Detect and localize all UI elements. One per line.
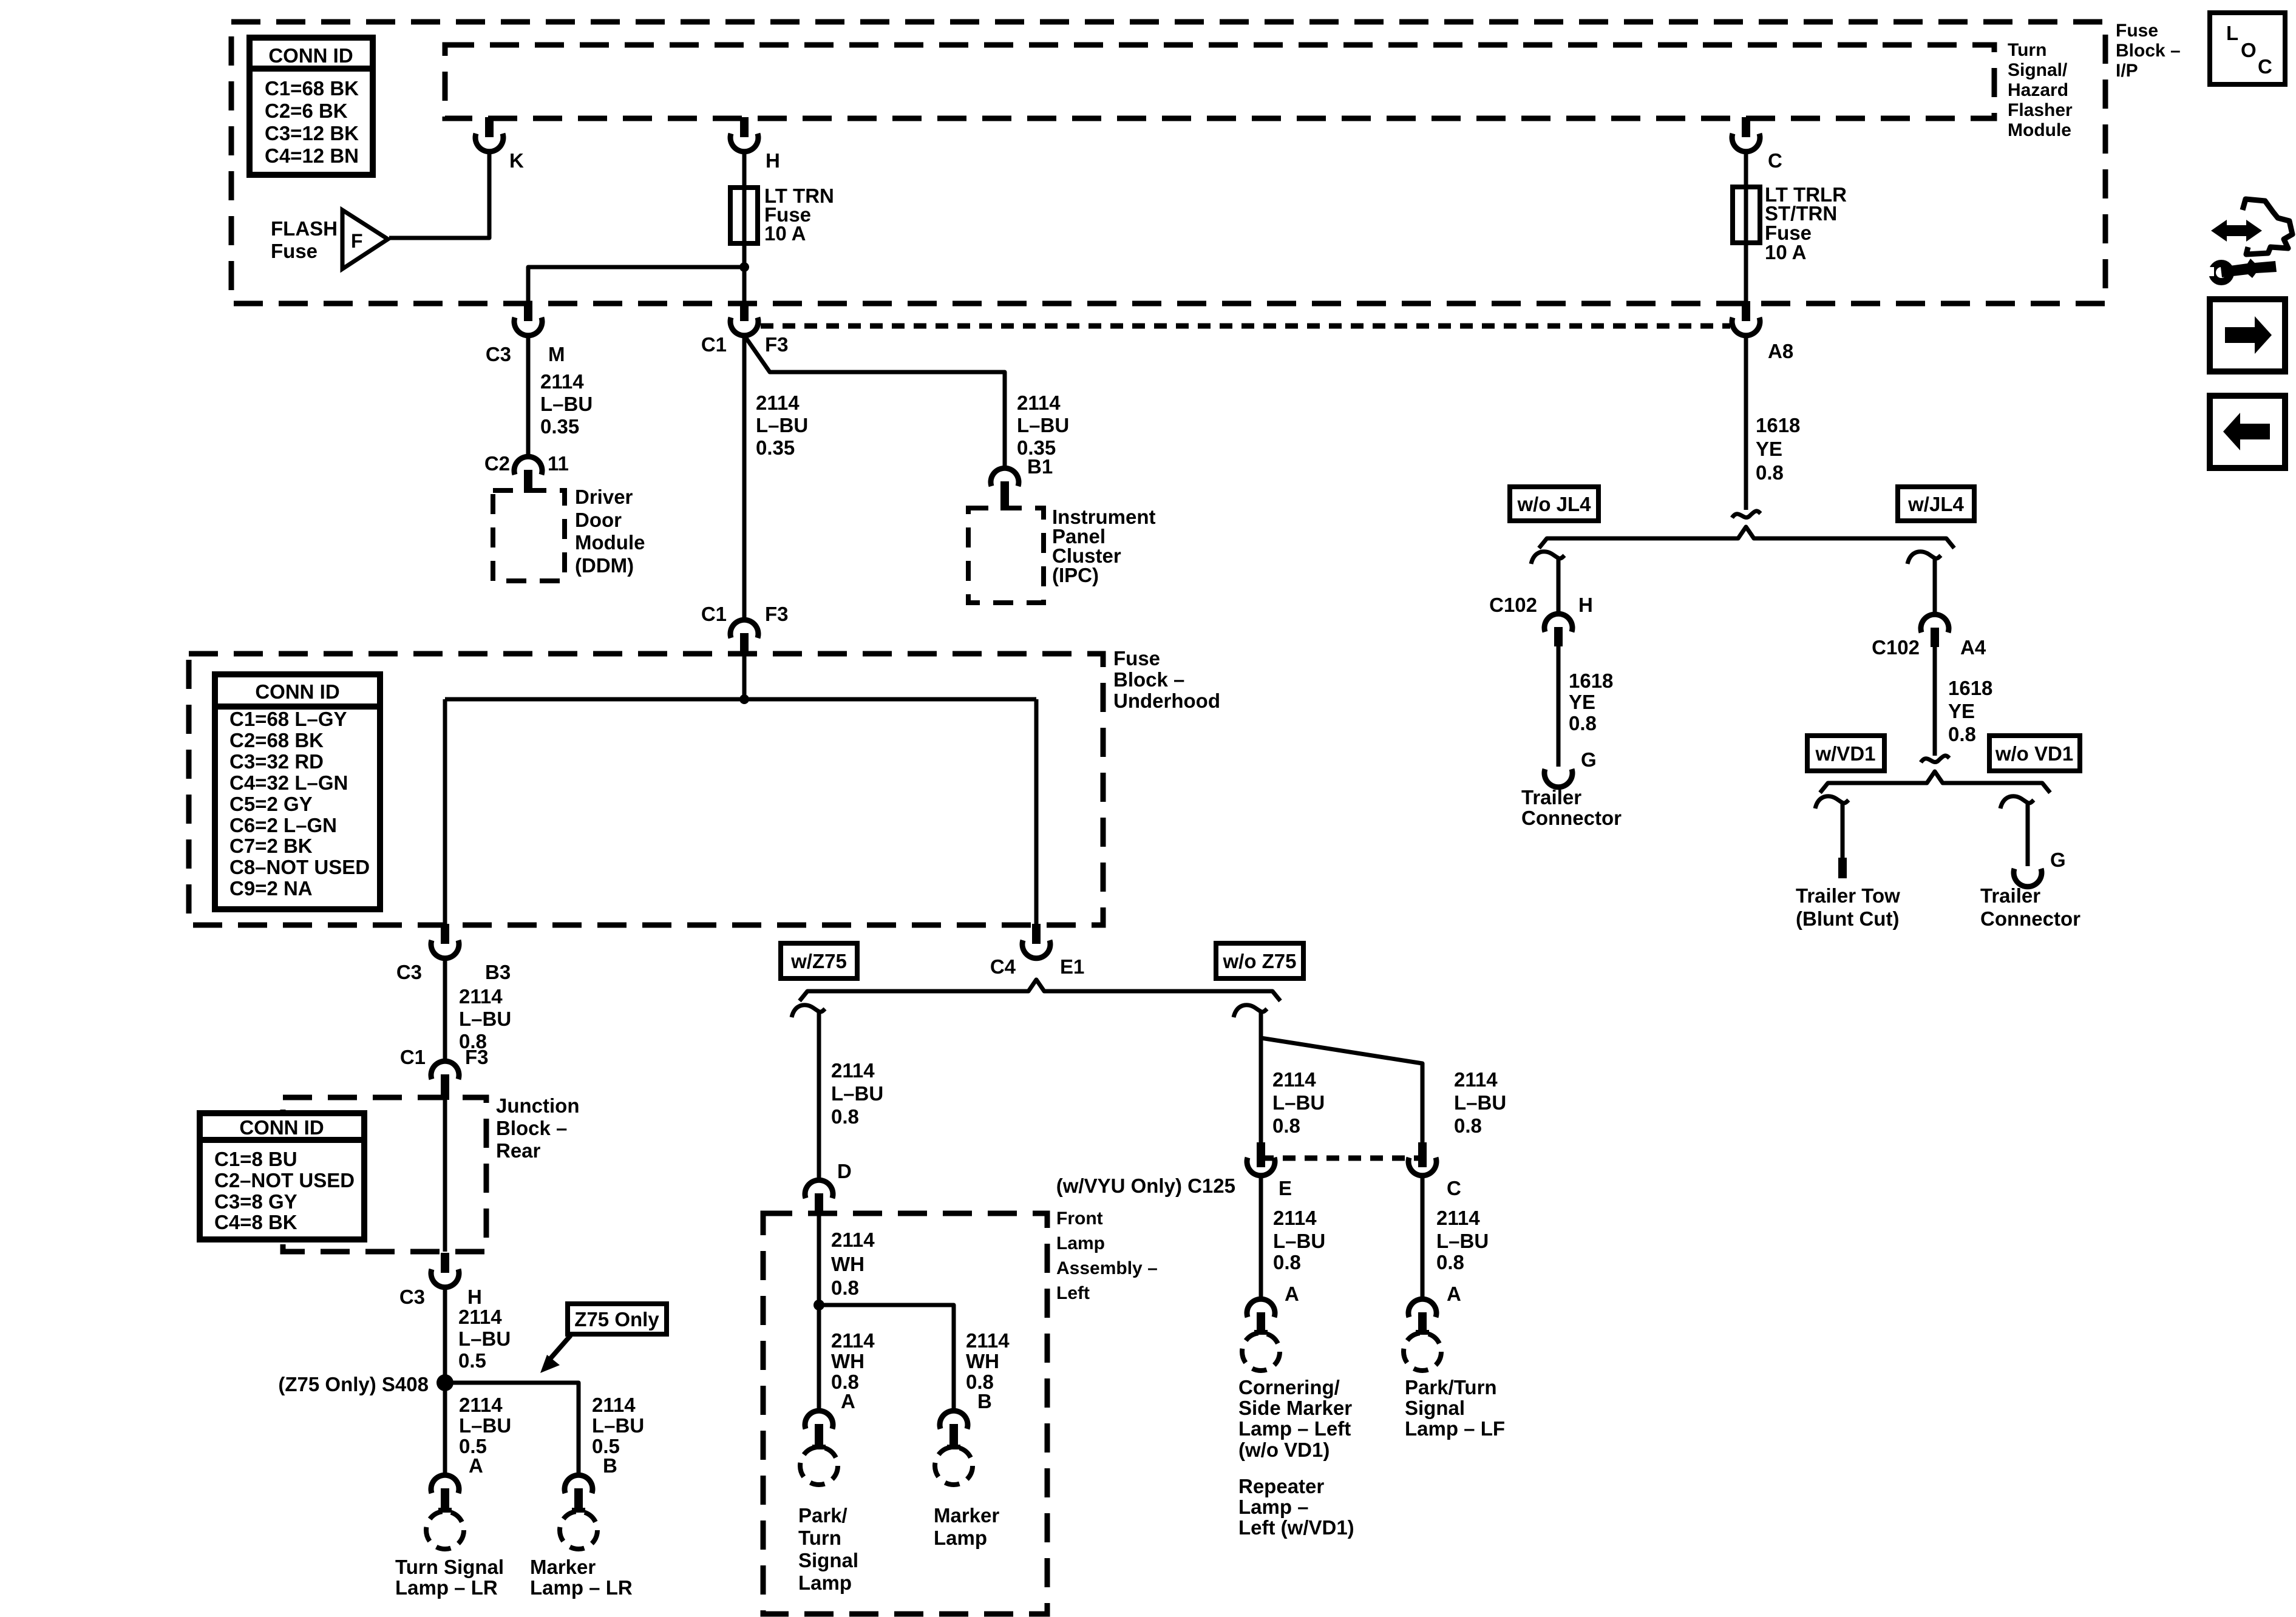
junction dot at underhood bus — [739, 694, 749, 704]
svg-text:Turn: Turn — [2008, 40, 2046, 60]
svg-text:L–BU: L–BU — [1017, 414, 1069, 436]
svg-text:C9=2 NA: C9=2 NA — [229, 877, 313, 900]
wire to front marker lamp — [819, 1305, 954, 1410]
svg-text:(Z75 Only) S408: (Z75 Only) S408 — [278, 1373, 429, 1395]
cut curl at A4 wire end — [1921, 756, 1949, 762]
svg-text:0.35: 0.35 — [756, 436, 795, 459]
hook at w/o VD1 branch — [2000, 796, 2034, 808]
wire C to LT TRLR fuse — [1744, 149, 1748, 189]
driver door module DDM dashed box — [493, 490, 565, 581]
svg-text:w/o JL4: w/o JL4 — [1517, 493, 1591, 515]
connector A (park/turn signal lamp) — [805, 1411, 833, 1429]
svg-text:0.8: 0.8 — [1569, 712, 1597, 734]
svg-text:WH: WH — [831, 1350, 864, 1372]
svg-text:Fuse: Fuse — [1113, 647, 1160, 670]
connector A (cornering lamp) — [1247, 1299, 1275, 1317]
svg-text:A4: A4 — [1960, 636, 1986, 659]
junction dot at LT TRN output — [739, 262, 749, 272]
svg-text:A: A — [469, 1454, 483, 1477]
blunt cut stub (trailer tow) — [1838, 858, 1847, 878]
svg-text:Block –: Block – — [1113, 668, 1184, 691]
svg-text:CONN ID: CONN ID — [239, 1116, 324, 1139]
svg-text:Cornering/: Cornering/ — [1238, 1376, 1340, 1398]
CONN ID table (underhood) — [215, 674, 380, 909]
svg-text:Turn Signal: Turn Signal — [395, 1556, 504, 1578]
wire w/o VD1 branch — [2026, 805, 2030, 866]
option label box w/o VD1 — [1989, 736, 2080, 771]
svg-text:0.8: 0.8 — [1436, 1251, 1464, 1273]
svg-text:w/o VD1: w/o VD1 — [1995, 742, 2073, 765]
fuse block underhood dashed box — [189, 654, 1103, 925]
svg-text:Marker: Marker — [530, 1556, 596, 1578]
svg-text:F3: F3 — [465, 1046, 489, 1068]
svg-text:Repeater: Repeater — [1238, 1475, 1324, 1497]
svg-text:C2=6 BK: C2=6 BK — [265, 100, 348, 122]
option label box w/o Z75 — [1216, 943, 1303, 978]
svg-text:L–BU: L–BU — [1272, 1091, 1325, 1114]
svg-text:(DDM): (DDM) — [575, 554, 634, 577]
svg-text:(w/VYU Only) C125: (w/VYU Only) C125 — [1056, 1175, 1235, 1197]
diagonal wire to C branch — [1261, 1038, 1422, 1142]
svg-text:C1: C1 — [400, 1046, 426, 1068]
svg-text:Park/: Park/ — [798, 1504, 847, 1527]
junction dot front lamp — [813, 1300, 824, 1310]
fuse LT TRN 10A — [730, 188, 758, 243]
svg-text:2114: 2114 — [831, 1059, 875, 1082]
svg-text:FLASH: FLASH — [271, 217, 338, 240]
turn signal lamp LR bulb — [426, 1511, 464, 1549]
svg-text:(w/o VD1): (w/o VD1) — [1238, 1439, 1330, 1461]
hook at w/o JL4 branch — [1531, 552, 1564, 564]
wire w/o JL4 branch to C102 — [1557, 560, 1561, 613]
service manual icon (wrench) — [2211, 220, 2262, 242]
svg-text:C3=12 BK: C3=12 BK — [265, 122, 359, 144]
connector A (park/turn lamp LF) — [1408, 1299, 1436, 1317]
svg-text:2114: 2114 — [1436, 1207, 1480, 1229]
svg-text:YE: YE — [1569, 691, 1595, 713]
svg-text:Block –: Block – — [2116, 41, 2181, 61]
connector E (inline C125) — [1257, 1142, 1265, 1167]
svg-text:L–BU: L–BU — [458, 1327, 511, 1350]
svg-text:1618: 1618 — [1948, 677, 1992, 699]
svg-text:C1: C1 — [701, 333, 727, 356]
svg-text:Front: Front — [1056, 1209, 1103, 1229]
svg-text:Left: Left — [1056, 1283, 1090, 1303]
svg-text:Rear: Rear — [496, 1139, 541, 1162]
connector C2 pin 11 (DDM input) — [514, 456, 542, 475]
svg-text:Park/Turn: Park/Turn — [1405, 1376, 1497, 1398]
svg-text:K: K — [509, 149, 524, 172]
connector A (turn signal lamp LR) — [431, 1475, 459, 1493]
svg-text:Trailer: Trailer — [1980, 884, 2040, 907]
option label box w/o JL4 — [1510, 487, 1598, 521]
svg-text:2114: 2114 — [1273, 1207, 1317, 1229]
svg-text:w/Z75: w/Z75 — [790, 950, 847, 972]
svg-text:C1=68 BK: C1=68 BK — [265, 77, 359, 100]
wire C102-H to trailer connector — [1557, 646, 1561, 767]
svg-text:H: H — [467, 1286, 482, 1308]
svg-text:0.8: 0.8 — [1454, 1114, 1482, 1137]
svg-text:O: O — [2241, 39, 2257, 61]
JL4 option brace — [1539, 527, 1954, 548]
svg-text:Module: Module — [575, 531, 645, 554]
svg-text:Signal/: Signal/ — [2008, 60, 2068, 80]
wire S408 to marker branch — [445, 1383, 579, 1474]
svg-text:2114: 2114 — [1272, 1068, 1316, 1091]
svg-text:Lamp – LF: Lamp – LF — [1405, 1417, 1505, 1440]
svg-text:0.8: 0.8 — [1273, 1251, 1301, 1273]
svg-text:C3: C3 — [399, 1286, 425, 1308]
svg-text:Lamp: Lamp — [798, 1571, 852, 1594]
svg-text:C4=8 BK: C4=8 BK — [214, 1211, 297, 1233]
svg-text:Underhood: Underhood — [1113, 690, 1220, 712]
svg-text:A: A — [841, 1390, 855, 1412]
svg-text:2114: 2114 — [1017, 392, 1061, 414]
svg-text:Side Marker: Side Marker — [1238, 1397, 1352, 1419]
svg-text:2114: 2114 — [831, 1329, 875, 1352]
svg-text:w/o Z75: w/o Z75 — [1222, 950, 1296, 972]
svg-text:C2: C2 — [484, 452, 510, 475]
svg-text:Lamp –: Lamp – — [1238, 1496, 1309, 1518]
svg-text:L–BU: L–BU — [831, 1082, 883, 1105]
svg-text:C102: C102 — [1872, 636, 1920, 659]
hook at w/o Z75 branch — [1234, 1005, 1267, 1017]
park/turn signal lamp bulb — [800, 1447, 838, 1485]
svg-text:A: A — [1447, 1283, 1461, 1305]
svg-text:L–BU: L–BU — [459, 1414, 511, 1437]
svg-text:F3: F3 — [765, 603, 789, 625]
forward arrow box — [2210, 299, 2285, 371]
svg-text:Signal: Signal — [1405, 1397, 1465, 1419]
svg-text:Lamp – LR: Lamp – LR — [395, 1576, 498, 1599]
svg-text:0.8: 0.8 — [1272, 1114, 1300, 1137]
hook at w/VD1 branch — [1815, 796, 1849, 808]
svg-text:WH: WH — [966, 1350, 999, 1372]
svg-text:L–BU: L–BU — [756, 414, 808, 436]
svg-text:2114: 2114 — [1454, 1068, 1498, 1091]
svg-text:Connector: Connector — [1521, 807, 1622, 829]
svg-text:11: 11 — [548, 452, 569, 475]
wire below LT TRLR fuse — [1744, 243, 1748, 302]
svg-text:0.8: 0.8 — [831, 1105, 859, 1128]
wire C to park/turn LF — [1421, 1178, 1425, 1298]
wire to IPC B1 — [746, 338, 1005, 467]
underhood bus wire — [445, 697, 1036, 702]
front lamp assembly dashed box — [763, 1213, 1047, 1614]
flash fuse triangle F — [342, 210, 388, 269]
front marker lamp bulb — [935, 1447, 973, 1485]
cut curl at A8 wire end — [1732, 511, 1761, 518]
connector B (marker lamp LR) — [565, 1475, 593, 1493]
svg-text:I/P: I/P — [2116, 61, 2138, 81]
svg-text:D: D — [837, 1160, 852, 1182]
trailer connector cup (w/o VD1) — [2014, 869, 2042, 887]
svg-text:E: E — [1279, 1177, 1292, 1199]
connector C1 pin F3 (fuse block I/P output) — [740, 301, 749, 321]
svg-text:Left (w/VD1): Left (w/VD1) — [1238, 1516, 1354, 1539]
svg-text:Door: Door — [575, 509, 622, 531]
junction block rear dashed box — [283, 1097, 486, 1252]
connector C3 pin M (fuse block to DDM) — [524, 301, 532, 321]
bus left drop — [443, 699, 447, 925]
svg-text:C4: C4 — [990, 955, 1016, 978]
svg-text:C102: C102 — [1489, 594, 1537, 616]
svg-text:C3: C3 — [486, 343, 511, 365]
dotted boundary line to A8 — [761, 324, 1730, 329]
Z75 Only callout box — [568, 1304, 667, 1334]
svg-text:w/JL4: w/JL4 — [1907, 493, 1964, 515]
svg-text:C: C — [2258, 55, 2272, 78]
svg-text:H: H — [766, 149, 780, 172]
wire through junction block — [443, 1097, 447, 1252]
wire C3-H to S408 — [443, 1285, 447, 1383]
svg-text:L: L — [2226, 22, 2238, 44]
wire w/o Z75 branch to E — [1259, 1016, 1263, 1142]
back arrow box — [2210, 396, 2285, 468]
connector C1 pin F3 (underhood fuse block input) — [730, 620, 758, 638]
svg-text:0.8: 0.8 — [1948, 723, 1976, 745]
svg-text:10 A: 10 A — [1765, 241, 1806, 263]
svg-text:(IPC): (IPC) — [1052, 564, 1099, 586]
trailer connector cup (w/o JL4) — [1544, 769, 1572, 787]
svg-text:C3=32 RD: C3=32 RD — [229, 750, 324, 773]
dotted line between E and C — [1261, 1156, 1422, 1161]
svg-text:WH: WH — [831, 1253, 864, 1275]
svg-text:YE: YE — [1948, 700, 1975, 722]
wire C3-B3 down — [443, 956, 447, 1060]
svg-text:0.5: 0.5 — [458, 1349, 486, 1372]
svg-text:C3: C3 — [396, 961, 422, 983]
svg-text:0.8: 0.8 — [831, 1276, 859, 1299]
svg-text:Module: Module — [2008, 120, 2071, 140]
svg-text:C1=68 L–GY: C1=68 L–GY — [229, 708, 347, 730]
fuse LT TRLR ST/TRN 10A — [1733, 187, 1760, 243]
connector C1 pin F3 (junction block rear input) — [431, 1061, 459, 1079]
fuse block I/P outer dashed box — [231, 22, 2105, 303]
svg-text:Fuse: Fuse — [2116, 21, 2158, 41]
svg-text:L–BU: L–BU — [1273, 1230, 1325, 1252]
wire S408 to turn signal lamp — [443, 1383, 447, 1474]
svg-text:2114: 2114 — [966, 1329, 1010, 1352]
wire w/VD1 branch — [1841, 805, 1845, 858]
wire to C3-M branch — [528, 267, 744, 302]
svg-text:L–BU: L–BU — [1436, 1230, 1489, 1252]
svg-text:10 A: 10 A — [764, 222, 806, 245]
bus right drop — [1034, 699, 1039, 925]
svg-text:Marker: Marker — [934, 1504, 999, 1527]
VD1 option brace — [1820, 771, 2050, 793]
wire into underhood bus — [742, 656, 747, 699]
svg-text:L–BU: L–BU — [540, 393, 593, 415]
connector K (flasher module pin K) — [485, 117, 494, 137]
svg-text:Assembly –: Assembly – — [1056, 1258, 1158, 1278]
instrument panel cluster dashed box — [968, 508, 1044, 603]
svg-text:G: G — [2050, 849, 2066, 871]
svg-text:B3: B3 — [485, 961, 511, 983]
wire C3-M to DDM — [526, 333, 531, 456]
hook at w/JL4 branch — [1907, 552, 1941, 564]
wire from K to flash fuse — [389, 149, 489, 238]
svg-text:G: G — [1581, 748, 1597, 771]
option label box w/VD1 — [1807, 736, 1884, 771]
svg-text:Trailer Tow: Trailer Tow — [1796, 884, 1900, 907]
svg-text:L–BU: L–BU — [1454, 1091, 1506, 1114]
connector C3 pin B3 (underhood output) — [441, 924, 449, 944]
wire w/Z75 branch to D — [817, 1016, 821, 1179]
svg-text:CONN ID: CONN ID — [268, 44, 353, 67]
svg-text:C: C — [1768, 149, 1782, 172]
hook at w/Z75 branch — [792, 1005, 825, 1017]
svg-text:F3: F3 — [765, 333, 789, 356]
svg-text:Trailer: Trailer — [1521, 786, 1581, 808]
svg-text:Connector: Connector — [1980, 907, 2080, 930]
svg-text:2114: 2114 — [756, 392, 800, 414]
svg-text:0.8: 0.8 — [1756, 461, 1784, 484]
svg-text:C8–NOT USED: C8–NOT USED — [229, 856, 370, 878]
CONN ID table (junction block rear) — [200, 1113, 364, 1239]
cornering lamp bulb — [1242, 1333, 1280, 1371]
svg-text:CONN ID: CONN ID — [255, 680, 339, 703]
svg-text:2114: 2114 — [459, 985, 503, 1008]
Z75 Only arrow — [549, 1335, 571, 1360]
svg-text:C4=12 BN: C4=12 BN — [265, 144, 359, 167]
svg-text:1618: 1618 — [1756, 414, 1800, 436]
svg-text:Signal: Signal — [798, 1549, 858, 1571]
svg-text:Lamp – LR: Lamp – LR — [530, 1576, 633, 1599]
wire below LT TRN fuse — [742, 243, 747, 302]
park/turn lamp LF bulb — [1404, 1333, 1441, 1371]
svg-text:C5=2 GY: C5=2 GY — [229, 793, 313, 815]
connector B (front marker lamp) — [940, 1411, 968, 1429]
svg-text:Flasher: Flasher — [2008, 100, 2073, 120]
svg-text:C7=2 BK: C7=2 BK — [229, 835, 313, 857]
svg-text:Lamp: Lamp — [934, 1527, 987, 1549]
connector C3 pin H (junction block output) — [441, 1253, 449, 1273]
wire C102-A4 to VD1 split — [1933, 647, 1937, 756]
svg-text:Junction: Junction — [496, 1094, 580, 1117]
connector A8 (I/P fuse block output) — [1742, 301, 1750, 321]
Z75 option brace — [800, 980, 1280, 1001]
connector B1 (IPC input) — [991, 468, 1019, 486]
svg-text:A: A — [1285, 1283, 1299, 1305]
svg-text:C4=32 L–GN: C4=32 L–GN — [229, 771, 348, 794]
option label box w/JL4 — [1898, 487, 1974, 521]
connector C (flasher module pin C) — [1742, 117, 1750, 137]
CONN ID table (fuse block I/P) — [250, 38, 373, 175]
wire E to cornering lamp — [1259, 1178, 1263, 1298]
connector H (flasher module pin H) — [740, 117, 749, 137]
LOC reference box — [2210, 13, 2285, 84]
svg-text:H: H — [1578, 594, 1593, 616]
svg-text:2114: 2114 — [459, 1394, 503, 1416]
connector C102 pin H (inline) — [1544, 614, 1572, 632]
connector C (inline C125) — [1418, 1142, 1427, 1167]
connector C4 pin E1 (underhood output) — [1032, 924, 1041, 944]
wire C1-F3 down to underhood fuse block — [742, 337, 747, 619]
svg-text:Z75 Only: Z75 Only — [574, 1308, 659, 1331]
wire D to park/turn lamp — [817, 1216, 821, 1410]
svg-text:Block –: Block – — [496, 1117, 567, 1139]
marker lamp LR bulb — [560, 1511, 597, 1549]
wire A8 down to JL4 split — [1744, 333, 1748, 510]
svg-text:2114: 2114 — [458, 1306, 502, 1328]
svg-text:Fuse: Fuse — [271, 240, 318, 262]
svg-text:C3=8 GY: C3=8 GY — [214, 1190, 297, 1213]
svg-text:L–BU: L–BU — [592, 1414, 644, 1437]
wire H to LT TRN fuse — [742, 149, 747, 189]
svg-text:Driver: Driver — [575, 486, 633, 508]
svg-text:C1: C1 — [701, 603, 727, 625]
svg-text:2114: 2114 — [540, 370, 584, 393]
svg-text:B: B — [977, 1390, 992, 1412]
svg-text:C1=8 BU: C1=8 BU — [214, 1148, 297, 1170]
svg-text:Lamp – Left: Lamp – Left — [1238, 1417, 1351, 1440]
svg-text:0.35: 0.35 — [540, 415, 579, 438]
svg-text:C2=68 BK: C2=68 BK — [229, 729, 324, 751]
svg-text:F: F — [351, 230, 363, 252]
connector D (front lamp assembly input) — [805, 1180, 833, 1198]
svg-text:YE: YE — [1756, 438, 1782, 460]
svg-text:Lamp: Lamp — [1056, 1233, 1105, 1253]
svg-text:2114: 2114 — [831, 1229, 875, 1251]
svg-text:L–BU: L–BU — [459, 1008, 511, 1030]
svg-text:C: C — [1447, 1177, 1461, 1199]
svg-text:B1: B1 — [1027, 455, 1053, 478]
svg-text:Turn: Turn — [798, 1527, 841, 1549]
svg-text:B: B — [603, 1454, 617, 1477]
svg-text:A8: A8 — [1768, 340, 1793, 362]
splice S408 — [436, 1374, 453, 1391]
svg-text:2114: 2114 — [592, 1394, 636, 1416]
svg-text:E1: E1 — [1060, 955, 1084, 978]
svg-text:1618: 1618 — [1569, 670, 1613, 692]
svg-text:(Blunt Cut): (Blunt Cut) — [1796, 907, 1899, 930]
connector C102 pin A4 (inline) — [1921, 614, 1949, 632]
turn signal hazard flasher module dashed box — [445, 45, 1994, 118]
svg-text:w/VD1: w/VD1 — [1815, 742, 1875, 765]
svg-text:Hazard: Hazard — [2008, 80, 2068, 100]
svg-text:C2–NOT USED: C2–NOT USED — [214, 1169, 355, 1192]
option label box w/Z75 — [781, 943, 857, 978]
svg-text:M: M — [548, 343, 565, 365]
svg-text:C6=2 L–GN: C6=2 L–GN — [229, 814, 337, 836]
wire w/JL4 branch to C102 — [1933, 560, 1937, 614]
